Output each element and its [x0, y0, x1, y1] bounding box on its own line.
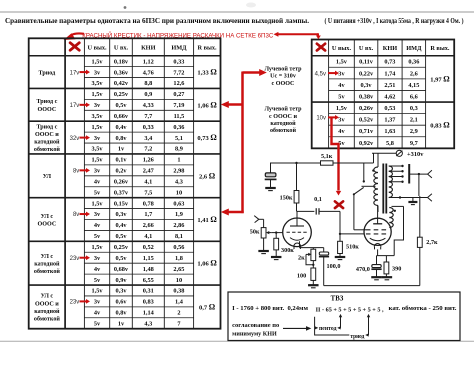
svg-text:1v: 1v [118, 320, 125, 327]
output tube 6P3S [364, 218, 391, 245]
right table outer border [312, 40, 455, 149]
svg-text:3,5v: 3,5v [92, 80, 104, 87]
6P3S plate [377, 206, 379, 224]
svg-text:1: 1 [177, 157, 180, 164]
svg-text:ОООС и: ОООС и [35, 301, 59, 307]
svg-text:10: 10 [176, 189, 182, 196]
svg-text:4,3: 4,3 [175, 178, 183, 185]
svg-text:390: 390 [392, 266, 401, 273]
svg-text:Лучевой тетр: Лучевой тетр [264, 65, 302, 72]
svg-text:0,6v: 0,6v [115, 299, 127, 306]
svg-text:0,4v: 0,4v [115, 222, 127, 229]
svg-text:0,27: 0,27 [173, 91, 184, 98]
svg-text:0,8v: 0,8v [115, 310, 127, 317]
svg-text:8,1: 8,1 [175, 233, 183, 240]
feedback wire from output [324, 285, 420, 287]
svg-text:1,5v: 1,5v [92, 58, 104, 65]
svg-text:5v: 5v [94, 233, 101, 240]
svg-text:7,19: 7,19 [173, 102, 184, 109]
red X left table header [70, 43, 79, 50]
svg-text:2,51: 2,51 [384, 82, 395, 89]
svg-text:0,18v: 0,18v [114, 58, 129, 65]
svg-text:3v: 3v [338, 70, 345, 77]
svg-text:1,15: 1,15 [143, 255, 154, 262]
svg-text:17v: 17v [70, 103, 80, 109]
right table header line [312, 55, 455, 57]
svg-text:0,63: 0,63 [173, 200, 184, 207]
svg-text:1,5v: 1,5v [92, 244, 104, 251]
svg-text:5v: 5v [94, 277, 101, 284]
svg-text:0,42v: 0,42v [114, 80, 129, 87]
svg-text:катодной: катодной [270, 120, 296, 127]
svg-text:0,73: 0,73 [384, 59, 395, 66]
svg-text:0,26v: 0,26v [114, 178, 129, 185]
svg-text:с ОООС: с ОООС [272, 81, 295, 87]
svg-text:4v: 4v [94, 178, 101, 185]
svg-text:0,38: 0,38 [173, 288, 184, 295]
red arrow to 1,06 Ohm [229, 103, 243, 106]
svg-text:0,71v: 0,71v [359, 128, 374, 135]
wire B+ rail to driver stage [373, 153, 375, 163]
red X at 6P3S grid [335, 201, 343, 208]
svg-text:7,2: 7,2 [144, 146, 152, 153]
svg-text:10v: 10v [316, 116, 326, 122]
svg-text:5,1: 5,1 [175, 135, 183, 142]
svg-text:0,22v: 0,22v [359, 70, 374, 77]
svg-text:0,78: 0,78 [143, 200, 154, 207]
red line from caption to right table X [278, 33, 318, 35]
6P3S screen grid [366, 229, 388, 231]
svg-text:обмоткой: обмоткой [34, 146, 60, 153]
svg-text:ТВЗ: ТВЗ [331, 295, 344, 302]
svg-text:5,1к: 5,1к [321, 153, 333, 160]
svg-text:3,4: 3,4 [144, 135, 153, 142]
svg-text:0,53: 0,53 [384, 105, 395, 112]
svg-text:ОООС: ОООС [38, 222, 57, 228]
svg-text:0,5v: 0,5v [115, 233, 127, 240]
svg-text:0,66v: 0,66v [114, 113, 129, 120]
svg-text:4,62: 4,62 [384, 93, 395, 100]
svg-text:3v: 3v [94, 102, 101, 109]
+310v supply wire [372, 152, 396, 154]
svg-text:U вх.: U вх. [359, 45, 374, 52]
svg-text:4v: 4v [338, 128, 345, 135]
left table outer border [29, 38, 221, 328]
svg-text:3v: 3v [94, 69, 101, 76]
svg-text:0,37v: 0,37v [114, 189, 129, 196]
svg-text:0,83: 0,83 [143, 299, 154, 306]
junction 150k [295, 162, 297, 164]
svg-text:1v: 1v [118, 146, 125, 153]
svg-text:Триод с: Триод с [36, 99, 57, 105]
svg-text:1,74: 1,74 [384, 70, 396, 77]
svg-text:УЛ с: УЛ с [41, 294, 54, 300]
svg-text:8v: 8v [73, 169, 79, 175]
6P3S cathode [370, 238, 386, 241]
right table group separator [312, 101, 455, 103]
svg-text:3v: 3v [94, 211, 101, 218]
svg-text:1,5v: 1,5v [92, 157, 104, 164]
red connector line between tables [241, 72, 244, 214]
svg-text:0,92v: 0,92v [359, 140, 374, 147]
wire to 6P3S grid [339, 211, 341, 234]
svg-text:1,5v: 1,5v [336, 105, 348, 112]
svg-text:кат. обмотка - 250 вит.: кат. обмотка - 250 вит. [389, 305, 457, 312]
svg-text:0,26v: 0,26v [359, 105, 374, 112]
svg-text:2,86: 2,86 [173, 222, 184, 229]
svg-text:7,7: 7,7 [144, 113, 152, 120]
svg-text:0,5v: 0,5v [115, 102, 127, 109]
svg-text:4,1: 4,1 [144, 233, 152, 240]
svg-text:11,5: 11,5 [174, 113, 185, 120]
svg-text:1,06 Ω: 1,06 Ω [197, 259, 217, 268]
svg-text:согласование по: согласование по [232, 323, 279, 329]
svg-text:0,33: 0,33 [143, 124, 154, 131]
svg-text:2,6: 2,6 [410, 70, 418, 77]
svg-text:510к: 510к [346, 244, 359, 251]
resistor 2,7k feedback [417, 237, 422, 247]
svg-text:R вых.: R вых. [197, 45, 217, 52]
svg-text:ОООС: ОООС [38, 107, 57, 113]
svg-text:обмоткой: обмоткой [34, 315, 60, 322]
ground 300k [271, 256, 282, 258]
driver triode 6N9S [283, 218, 312, 247]
svg-text:4,15: 4,15 [408, 82, 419, 89]
resistor 5,1k [321, 161, 334, 165]
svg-text:1,14: 1,14 [143, 310, 155, 317]
svg-text:4v: 4v [338, 82, 345, 89]
6P3S control grid [366, 233, 388, 235]
svg-text:катодной: катодной [34, 139, 60, 146]
svg-text:0,9: 0,9 [144, 91, 152, 98]
svg-text:1,06 Ω: 1,06 Ω [197, 100, 217, 109]
ground output terminal [412, 198, 414, 202]
svg-text:8,9: 8,9 [175, 146, 183, 153]
svg-text:( U питания +310v , I катода: ( U питания +310v , I катода 55ма , R на… [325, 18, 464, 25]
svg-text:обмоткой: обмоткой [270, 127, 296, 134]
svg-text:2,6 Ω: 2,6 Ω [199, 171, 216, 180]
svg-text:0,25v: 0,25v [114, 91, 129, 98]
svg-text:Сравнительные параметры однота: Сравнительные параметры однотакта на 6П3… [5, 17, 309, 25]
svg-text:1,97 Ω: 1,97 Ω [430, 74, 450, 83]
svg-text:0,24мм: 0,24мм [288, 305, 309, 312]
svg-text:I - 1760 + 800 вит.: I - 1760 + 800 вит. [232, 305, 284, 312]
svg-text:3v: 3v [94, 299, 101, 306]
svg-text:1,7: 1,7 [144, 211, 152, 218]
svg-text:триод: триод [350, 334, 365, 340]
TVZ info box [228, 292, 460, 341]
ground 50k [258, 250, 269, 252]
screen wire and mode switch [353, 194, 355, 230]
svg-text:17v: 17v [70, 70, 80, 76]
secondary taps [389, 165, 403, 167]
resistor 100 [312, 261, 314, 268]
svg-text:2,47: 2,47 [143, 168, 154, 175]
svg-text:2,1: 2,1 [410, 117, 418, 124]
resistor 390 [385, 256, 387, 262]
svg-text:3v: 3v [94, 255, 101, 262]
svg-text:2к: 2к [298, 254, 305, 261]
svg-text:0,9v: 0,9v [115, 277, 127, 284]
svg-text:1,37: 1,37 [384, 117, 395, 124]
resistor 300k [275, 233, 277, 239]
potentiometer 50k volume [261, 228, 266, 238]
switch contact from B+ rail [363, 163, 365, 181]
svg-text:6,55: 6,55 [143, 277, 154, 284]
svg-text:катодной: катодной [34, 260, 60, 267]
svg-text:300к: 300к [281, 247, 294, 254]
cathode winding [389, 208, 393, 228]
svg-text:0,15v: 0,15v [114, 200, 129, 207]
svg-text:1,5v: 1,5v [336, 59, 348, 66]
svg-text:0,1v: 0,1v [115, 157, 127, 164]
svg-text:5v: 5v [94, 320, 101, 327]
svg-text:7,72: 7,72 [173, 69, 184, 76]
svg-text:U вх.: U вх. [114, 45, 129, 52]
red path from 10v annotation to 6P3S grid X [332, 118, 339, 191]
red caption left hook arrow [71, 33, 85, 35]
driver cathode wire [299, 241, 301, 247]
resistor 510k grid leak [339, 234, 341, 241]
svg-text:ИМД: ИМД [406, 45, 422, 52]
svg-text:U вых.: U вых. [332, 45, 352, 52]
svg-text:3v: 3v [94, 135, 101, 142]
svg-text:0,83 Ω: 0,83 Ω [430, 121, 450, 130]
svg-text:1,9: 1,9 [175, 211, 183, 218]
svg-text:минимуму КНИ: минимуму КНИ [232, 331, 277, 337]
svg-text:II - 65 + 5 + 5 + 5 + 5 + 5 ,: II - 65 + 5 + 5 + 5 + 5 + 5 , [316, 307, 384, 314]
svg-text:0,36: 0,36 [408, 59, 419, 66]
capacitor 470,0 [376, 256, 378, 265]
svg-text:0,33: 0,33 [173, 58, 184, 65]
svg-text:Uc = 310v: Uc = 310v [270, 74, 297, 80]
svg-text:УЛ с: УЛ с [41, 214, 54, 220]
svg-text:8v: 8v [73, 212, 79, 218]
input terminal [254, 216, 259, 223]
capacitor 0,1 [315, 208, 317, 214]
svg-text:0,3v: 0,3v [115, 211, 127, 218]
svg-text:КНИ: КНИ [141, 45, 155, 52]
svg-text:2,7к: 2,7к [426, 239, 438, 246]
svg-text:Триод: Триод [39, 70, 57, 76]
svg-text:1,33 Ω: 1,33 Ω [197, 68, 217, 77]
svg-text:0,3: 0,3 [410, 105, 418, 112]
left table column lines [64, 38, 66, 328]
svg-text:УЛ с: УЛ с [41, 254, 54, 260]
svg-text:0,5v: 0,5v [115, 255, 127, 262]
svg-text:5v: 5v [94, 189, 101, 196]
svg-text:4v: 4v [94, 222, 101, 229]
wire wiper to grid [272, 232, 283, 234]
ground cathode network [308, 284, 319, 286]
pentode tap bracket [315, 317, 350, 335]
svg-text:катодной: катодной [34, 308, 60, 315]
decoupling capacitor [270, 163, 272, 173]
scan artifact dot [124, 6, 127, 9]
svg-text:2: 2 [177, 310, 180, 317]
svg-text:4,5v: 4,5v [315, 71, 326, 77]
secondary bus bar [408, 164, 410, 184]
ground 510k [335, 256, 346, 258]
svg-text:2,66: 2,66 [143, 222, 154, 229]
svg-text:1,41 Ω: 1,41 Ω [197, 215, 217, 224]
svg-text:0,1: 0,1 [314, 196, 322, 203]
svg-text:0,31: 0,31 [143, 288, 154, 295]
svg-text:100,0: 100,0 [327, 263, 341, 270]
svg-text:ОООС и: ОООС и [35, 132, 59, 138]
svg-text:5,8: 5,8 [386, 140, 394, 147]
svg-text:4,76: 4,76 [143, 69, 154, 76]
svg-text:КНИ: КНИ [383, 45, 397, 52]
+310v terminal circle [396, 150, 402, 156]
svg-text:2,65: 2,65 [173, 266, 184, 273]
svg-text:6,6: 6,6 [410, 93, 418, 100]
svg-text:8,8: 8,8 [144, 80, 152, 87]
svg-text:0,25v: 0,25v [114, 244, 129, 251]
svg-text:1,4: 1,4 [175, 299, 184, 306]
svg-text:Триод с: Триод с [36, 124, 57, 130]
right table row lines [329, 66, 426, 68]
left table row lines [84, 66, 193, 68]
svg-text:3v: 3v [94, 168, 101, 175]
svg-text:0,68v: 0,68v [114, 266, 129, 273]
svg-text:1,48: 1,48 [143, 266, 154, 273]
left table group separator lines [29, 87, 221, 89]
UL tap wire [362, 185, 376, 187]
potentiometer 2k [312, 248, 314, 250]
svg-text:ИМД: ИМД [171, 45, 187, 52]
svg-text:обмоткой: обмоткой [34, 268, 60, 275]
svg-text:23v: 23v [70, 256, 80, 262]
svg-text:50к: 50к [250, 229, 260, 236]
svg-text:0,36v: 0,36v [114, 69, 129, 76]
svg-text:3v: 3v [338, 117, 345, 124]
svg-text:1,8: 1,8 [175, 255, 183, 262]
svg-text:0,4v: 0,4v [115, 124, 127, 131]
left table header line [29, 55, 221, 57]
svg-text:3,5v: 3,5v [92, 146, 104, 153]
svg-text:+310v: +310v [407, 151, 424, 158]
svg-text:1,63: 1,63 [384, 128, 395, 135]
svg-text:0,56: 0,56 [173, 244, 184, 251]
cathode node wire [377, 255, 395, 257]
ground decoupling cap [265, 187, 276, 189]
transformer secondary winding [389, 166, 393, 198]
svg-text:УЛ: УЛ [43, 174, 52, 180]
wire plate to coupling cap [297, 210, 315, 212]
right table column lines [328, 40, 330, 149]
svg-text:0,7 Ω: 0,7 Ω [199, 302, 216, 311]
capacitor 100,0 [323, 248, 325, 252]
svg-text:R вых.: R вых. [430, 45, 450, 52]
svg-text:470,0: 470,0 [356, 266, 370, 273]
svg-text:2,9: 2,9 [410, 128, 418, 135]
svg-text:0,36: 0,36 [173, 124, 184, 131]
svg-text:3,5v: 3,5v [92, 113, 104, 120]
scan artifact gray line [0, 11, 474, 13]
svg-text:0,52: 0,52 [143, 244, 154, 251]
svg-text:100: 100 [297, 273, 306, 280]
svg-text:0,8v: 0,8v [115, 135, 127, 142]
svg-text:Лучевой тетр: Лучевой тетр [264, 106, 302, 113]
arrow matching note to pentode tap [283, 327, 307, 329]
svg-text:0,2v: 0,2v [115, 168, 127, 175]
svg-text:0,38v: 0,38v [359, 93, 374, 100]
scan artifact gray line bottom [0, 340, 474, 342]
svg-text:2,98: 2,98 [173, 168, 184, 175]
svg-text:4,1: 4,1 [144, 178, 152, 185]
svg-text:4v: 4v [94, 310, 101, 317]
svg-text:5v: 5v [338, 93, 345, 100]
transformer primary winding [374, 167, 378, 206]
svg-text:с ОООС и: с ОООС и [269, 114, 297, 120]
svg-text:0,52v: 0,52v [359, 117, 374, 124]
svg-text:23v: 23v [70, 300, 80, 306]
output terminal wires [409, 173, 427, 175]
svg-text:4,33: 4,33 [143, 102, 154, 109]
svg-text:1,12: 1,12 [143, 58, 154, 65]
wiper loop wire [306, 254, 313, 264]
svg-text:0,11v: 0,11v [359, 59, 374, 66]
svg-text:4,3: 4,3 [144, 320, 152, 327]
svg-text:1,26: 1,26 [143, 157, 154, 164]
svg-text:4v: 4v [94, 266, 101, 273]
svg-text:1,5v: 1,5v [92, 288, 104, 295]
svg-text:10: 10 [176, 277, 182, 284]
svg-text:7,5: 7,5 [144, 189, 152, 196]
svg-text:0,3v: 0,3v [115, 288, 127, 295]
svg-text:1,5v: 1,5v [92, 124, 104, 131]
svg-text:32v: 32v [70, 136, 80, 142]
svg-text:150к: 150к [280, 195, 293, 202]
svg-text:12,6: 12,6 [173, 80, 184, 87]
svg-text:U вых.: U вых. [87, 45, 107, 52]
red arrow to 1,41 Ohm [229, 211, 244, 214]
svg-text:0,73 Ω: 0,73 Ω [197, 133, 217, 142]
svg-text:пентод: пентод [319, 326, 337, 332]
svg-text:7: 7 [177, 320, 180, 327]
svg-text:9,7: 9,7 [410, 140, 418, 147]
resistor 150k [296, 163, 298, 191]
svg-text:1,5v: 1,5v [92, 91, 104, 98]
switch lever [354, 187, 364, 194]
svg-text:1,5v: 1,5v [92, 200, 104, 207]
transformer core [382, 164, 384, 214]
svg-text:0,3v: 0,3v [361, 82, 373, 89]
red X right table header [317, 44, 325, 51]
